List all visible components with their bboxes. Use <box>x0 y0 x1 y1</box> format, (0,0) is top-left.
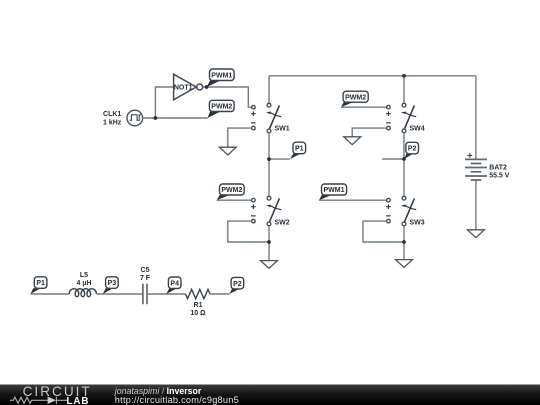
svg-text:NOT1: NOT1 <box>174 84 193 91</box>
wire R1 to P2 <box>210 293 229 295</box>
switch SW1 <box>251 103 281 133</box>
flag P1 (filter input) <box>30 277 47 294</box>
capacitor C5 <box>143 284 147 305</box>
inverter gate NOT1 <box>174 74 203 100</box>
svg-text:C5: C5 <box>141 267 150 274</box>
svg-text:10 Ω: 10 Ω <box>190 310 206 317</box>
inductor L5 <box>69 289 96 297</box>
label CLK1 1 kHz <box>103 111 122 127</box>
ground (right leg) <box>396 260 413 268</box>
wire NOT1 output to SW1 + control <box>203 87 252 107</box>
ground (battery) <box>467 230 484 238</box>
wire left leg bottom to ground <box>268 226 270 261</box>
ground (SW4 control) <box>344 137 361 145</box>
wire left leg top <box>268 76 270 104</box>
CircuitLab logo <box>10 384 92 405</box>
flag PWM2 (right top, SW4 control) <box>341 91 368 107</box>
flag PWM1 (top) <box>207 69 235 87</box>
wire right leg top <box>403 76 405 104</box>
wire L5 to C5 <box>97 293 143 295</box>
node junction left leg bottom <box>267 240 271 244</box>
flag PWM2 (middle, SW2 control) <box>217 184 245 200</box>
wire SW4 minus control to ground <box>352 128 386 137</box>
svg-text:PWM1: PWM1 <box>211 72 232 79</box>
svg-text:P1: P1 <box>36 280 45 287</box>
svg-text:BAT2: BAT2 <box>489 164 507 171</box>
flag P1 (left leg) <box>290 142 306 159</box>
switch SW2 <box>251 196 281 226</box>
clock source CLK1 <box>127 110 143 126</box>
top rail wire <box>269 75 476 77</box>
svg-text:L5: L5 <box>80 272 88 279</box>
wire SW3 minus control loop <box>363 221 404 242</box>
svg-text:PWM1: PWM1 <box>324 187 345 194</box>
svg-text:4 µH: 4 µH <box>77 280 92 287</box>
svg-text:SW3: SW3 <box>410 220 425 227</box>
wire stub at P2 node <box>382 158 404 160</box>
svg-text:SW1: SW1 <box>275 126 290 133</box>
wire battery bottom to ground <box>475 180 477 230</box>
flag P2 (filter output) <box>229 277 243 294</box>
wire left leg middle <box>268 133 270 197</box>
wire PWM1 to SW3 + control <box>319 199 387 201</box>
flag PWM1 (middle right, SW3 control) <box>319 184 347 200</box>
node junction at NOT1 output <box>205 85 209 89</box>
node junction right leg bottom <box>402 240 406 244</box>
flag PWM2 (left top) <box>208 100 235 118</box>
ground (left leg) <box>261 261 278 269</box>
wire right leg middle <box>403 133 405 197</box>
svg-text:PWM2: PWM2 <box>211 104 232 111</box>
switch SW3 <box>386 196 416 226</box>
wire PWM2 to SW4 + control <box>341 106 386 108</box>
flag P3 <box>103 277 118 294</box>
svg-text:1 kHz: 1 kHz <box>103 120 122 127</box>
svg-text:SW4: SW4 <box>410 126 425 133</box>
label C5 7 F <box>140 267 151 282</box>
svg-text:P2: P2 <box>233 281 242 288</box>
label L5 4 uH <box>77 272 92 287</box>
wire SW1 minus control to ground <box>228 128 252 147</box>
node junction top rail right leg <box>402 74 406 78</box>
flag P4 <box>166 277 181 294</box>
svg-text:CLK1: CLK1 <box>103 111 121 118</box>
label BAT2 55.5 V <box>489 164 510 179</box>
svg-text:7 F: 7 F <box>140 275 151 282</box>
footer bar <box>0 385 540 405</box>
wire CLK1 output to PWM2 anchor <box>143 117 208 119</box>
svg-text:PWM2: PWM2 <box>345 94 366 101</box>
svg-text:SW2: SW2 <box>275 220 290 227</box>
svg-text:http://circuitlab.com/c9g8un5: http://circuitlab.com/c9g8un5 <box>115 395 239 405</box>
svg-text:P1: P1 <box>295 146 304 153</box>
switch SW4 <box>386 103 416 133</box>
resistor R1 <box>186 289 211 298</box>
svg-text:R1: R1 <box>194 302 203 309</box>
label R1 10 Ohm <box>190 302 206 317</box>
node junction at CLK output <box>154 116 158 120</box>
wire P1 to L5 <box>30 293 69 295</box>
flag P2 (right leg) <box>404 142 419 159</box>
wire junction up to NOT1 input <box>155 87 173 118</box>
svg-text:LAB: LAB <box>67 396 90 405</box>
wire PWM2 to SW2 + control <box>217 199 252 201</box>
wire battery top <box>475 76 477 159</box>
wire to P1 flag <box>269 158 290 160</box>
wire right leg bottom to ground <box>403 226 405 260</box>
wire SW2 minus control loop <box>228 221 269 242</box>
node junction left leg mid <box>267 157 271 161</box>
svg-text:P4: P4 <box>170 280 179 287</box>
ground (SW1 control) <box>219 147 236 155</box>
battery BAT2 <box>465 153 487 180</box>
footer title text <box>114 386 239 405</box>
node junction right leg mid <box>402 157 406 161</box>
svg-text:P3: P3 <box>108 280 117 287</box>
svg-text:P2: P2 <box>408 146 417 153</box>
svg-text:55.5 V: 55.5 V <box>489 173 510 180</box>
svg-text:PWM2: PWM2 <box>221 187 242 194</box>
wire C5 to R1 <box>148 293 186 295</box>
